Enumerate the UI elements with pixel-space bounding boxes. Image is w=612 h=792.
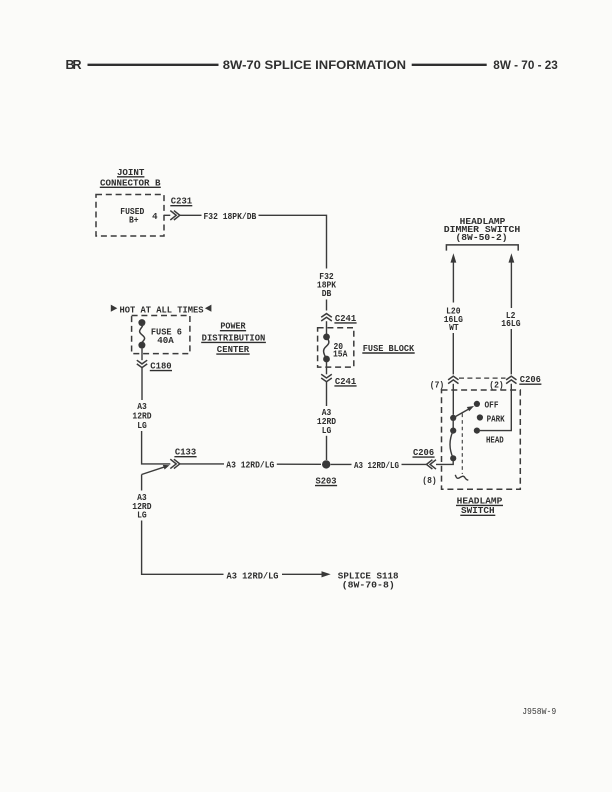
label SPLICE S118 (8W-70-8) bbox=[338, 571, 399, 591]
arrow up right (to dimmer) bbox=[509, 253, 515, 308]
connector C206 label (top) bbox=[519, 374, 541, 385]
fuse 6 40A symbol bbox=[138, 319, 145, 349]
connector C241 top symbol bbox=[321, 314, 332, 321]
wire fuse to C180 bbox=[141, 349, 143, 361]
connector C206 dashed grouping line bbox=[459, 377, 506, 379]
svg-text:J958W-9: J958W-9 bbox=[522, 707, 556, 717]
connector C206 symbol (headlamp switch feed) bbox=[427, 460, 437, 469]
svg-text:40A: 40A bbox=[157, 336, 174, 346]
wire to arrow bbox=[282, 573, 322, 575]
wire F32 segment bbox=[180, 214, 202, 216]
wire label A3 12RD LG (middle run) bbox=[317, 408, 337, 436]
header rule left bbox=[88, 64, 219, 66]
svg-text:(2): (2) bbox=[489, 381, 503, 391]
fuse label FUSE 6 40A bbox=[151, 327, 182, 346]
svg-text:12RD: 12RD bbox=[132, 412, 152, 422]
wire down to corner and right to C133 bbox=[142, 431, 171, 464]
connector C133 label bbox=[174, 447, 196, 458]
C133 tap diagonal bbox=[142, 465, 170, 475]
wire label L20 16LG WT bbox=[444, 306, 463, 333]
svg-text:DISTRIBUTION: DISTRIBUTION bbox=[202, 332, 266, 343]
svg-text:4: 4 bbox=[152, 212, 158, 222]
wire into switch (pin 2) bbox=[480, 384, 511, 431]
svg-text:C206: C206 bbox=[413, 447, 434, 458]
wire down to splice S203 bbox=[326, 436, 328, 460]
arrow to splice S118 bbox=[322, 571, 331, 577]
connector C231 symbol bbox=[170, 211, 180, 220]
svg-text:OFF: OFF bbox=[485, 401, 499, 411]
splice S203 dot bbox=[322, 460, 330, 468]
wire label F32 18PK DB (vertical run) bbox=[317, 272, 337, 299]
wire C133 to label bbox=[180, 463, 224, 465]
svg-text:8W-70 SPLICE INFORMATION: 8W-70 SPLICE INFORMATION bbox=[223, 58, 406, 72]
svg-text:HOT AT ALL TIMES: HOT AT ALL TIMES bbox=[120, 304, 204, 315]
splice S203 label bbox=[315, 476, 337, 487]
svg-text:A3 12RD/LG: A3 12RD/LG bbox=[227, 572, 279, 582]
wire between node dots bbox=[452, 418, 454, 431]
svg-text:(8W-70-8): (8W-70-8) bbox=[342, 579, 395, 590]
svg-text:C241: C241 bbox=[335, 376, 357, 387]
fuse 20 15A symbol bbox=[323, 334, 330, 363]
wire down from C241 bottom bbox=[326, 382, 328, 406]
svg-text:C231: C231 bbox=[171, 196, 193, 207]
wire L20 down to C206 bbox=[452, 333, 454, 374]
connector C206 symbol left (pin 7) bbox=[448, 376, 458, 383]
wire C180 down bbox=[141, 368, 143, 400]
svg-text:DB: DB bbox=[322, 289, 332, 299]
left branch: label HOT AT ALL TIMES bbox=[111, 304, 212, 315]
svg-text:POWER: POWER bbox=[220, 321, 245, 332]
joint connector B dashed box bbox=[96, 195, 164, 237]
power distribution center dashed box bbox=[132, 316, 190, 354]
label HEADLAMP DIMMER SWITCH (8W-50-2) bbox=[444, 216, 521, 243]
svg-text:(8): (8) bbox=[422, 476, 436, 486]
wire into C241 top bbox=[326, 300, 328, 311]
connector C241 top label bbox=[334, 313, 356, 324]
wire C206 into switch box bbox=[436, 458, 453, 464]
pin label FUSED B+ bbox=[120, 207, 145, 226]
svg-text:FUSE BLOCK: FUSE BLOCK bbox=[363, 343, 415, 354]
svg-text:16LG: 16LG bbox=[501, 319, 520, 329]
wire label A3 12RD LG (bottom run) bbox=[132, 493, 152, 520]
header rule right bbox=[412, 64, 487, 66]
svg-text:SWITCH: SWITCH bbox=[461, 505, 495, 516]
svg-text:C180: C180 bbox=[150, 361, 172, 372]
wire into switch (pin 7) bbox=[452, 384, 454, 415]
switch internal squiggle bbox=[455, 475, 468, 480]
wire label A3 12RD LG (left run) bbox=[132, 402, 152, 431]
svg-text:LG: LG bbox=[137, 511, 147, 521]
dimmer switch bracket bbox=[446, 245, 518, 251]
svg-text:(7): (7) bbox=[430, 381, 444, 391]
fuse block dashed box bbox=[318, 328, 354, 367]
svg-text:C133: C133 bbox=[175, 447, 197, 458]
wire C241 to fuse bbox=[326, 321, 328, 334]
wire label to C206 bbox=[402, 463, 427, 465]
wire down from tap bbox=[141, 475, 143, 491]
wire down to corner and right toward splice S118 bbox=[142, 521, 224, 575]
fuse value label 20 15A bbox=[333, 342, 348, 359]
svg-text:CENTER: CENTER bbox=[217, 344, 250, 355]
svg-text:15A: 15A bbox=[333, 350, 348, 360]
svg-text:BR: BR bbox=[66, 58, 82, 72]
wire label L2 16LG bbox=[501, 311, 520, 329]
HEAD contact dot bbox=[474, 428, 480, 434]
svg-text:PARK: PARK bbox=[487, 414, 506, 424]
wire F32 horizontal + corner down bbox=[259, 215, 327, 268]
svg-text:WT: WT bbox=[449, 323, 459, 333]
wire L2 down to C206 bbox=[510, 329, 512, 374]
svg-text:A3 12RD/LG: A3 12RD/LG bbox=[226, 461, 274, 471]
wire label to S203 bbox=[277, 463, 321, 465]
switch internal dashed link bbox=[461, 414, 463, 475]
wire fuse to C241 bottom bbox=[326, 362, 328, 375]
PARK contact dot bbox=[477, 414, 483, 420]
switch common node dot bbox=[450, 415, 456, 421]
connector C180 label bbox=[150, 361, 172, 372]
wire S203 to label right bbox=[331, 463, 352, 465]
connector C231 label bbox=[170, 196, 192, 207]
label FUSE BLOCK bbox=[362, 343, 414, 354]
label HEADLAMP SWITCH bbox=[456, 495, 503, 516]
svg-text:A3 12RD/LG: A3 12RD/LG bbox=[354, 461, 399, 471]
OFF contact dot bbox=[474, 401, 480, 407]
svg-text:LG: LG bbox=[137, 421, 147, 431]
svg-text:C241: C241 bbox=[335, 313, 357, 324]
headlamp switch dashed box bbox=[442, 390, 521, 489]
svg-text:LG: LG bbox=[322, 426, 332, 436]
wire from connector B to C231 bbox=[164, 214, 170, 216]
switch arm with arrow to OFF bbox=[454, 406, 474, 418]
svg-text:8W - 70 - 23: 8W - 70 - 23 bbox=[493, 58, 558, 72]
connector C241 bottom label bbox=[334, 376, 356, 387]
svg-text:S203: S203 bbox=[315, 476, 336, 487]
svg-text:B+: B+ bbox=[129, 215, 139, 225]
wiper track arc bbox=[450, 431, 453, 459]
svg-text:HEAD: HEAD bbox=[486, 436, 504, 446]
connector C241 bottom symbol bbox=[321, 374, 332, 381]
arrow up left (to dimmer) bbox=[451, 253, 457, 302]
connector C206 label (at splice) bbox=[413, 447, 435, 458]
connector C206 symbol right (pin 2) bbox=[506, 376, 516, 383]
connector C180 symbol bbox=[137, 360, 147, 367]
svg-text:F32 18PK/DB: F32 18PK/DB bbox=[204, 212, 257, 222]
switch output node dot bbox=[450, 455, 456, 461]
label POWER DISTRIBUTION CENTER bbox=[201, 321, 266, 355]
switch wiper track node dot bbox=[450, 428, 456, 434]
label JOINT CONNECTOR B bbox=[100, 167, 161, 189]
connector C133 symbol bbox=[170, 459, 180, 468]
svg-text:(8W-50-2): (8W-50-2) bbox=[456, 232, 508, 243]
svg-text:A3: A3 bbox=[137, 402, 147, 412]
svg-text:C206: C206 bbox=[520, 374, 541, 385]
